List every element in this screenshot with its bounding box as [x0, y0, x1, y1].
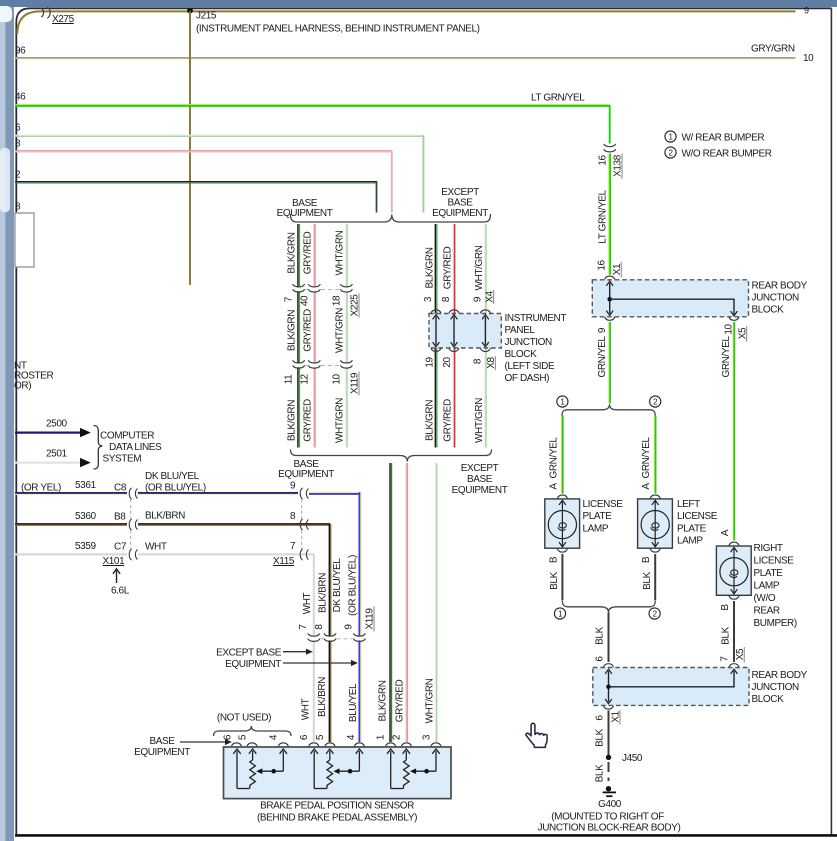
wire BLK/GRN to sensor [390, 463, 392, 742]
svg-text:8: 8 [441, 296, 452, 302]
svg-text:BLK: BLK [595, 728, 606, 746]
svg-text:8: 8 [314, 624, 325, 630]
svg-text:PLATE: PLATE [583, 511, 613, 522]
svg-text:BLK: BLK [642, 571, 653, 589]
note 2 circle right [650, 396, 661, 407]
splice J215 [187, 8, 480, 35]
svg-text:REAR: REAR [754, 606, 780, 617]
connector X275 [41, 7, 74, 25]
ground G400 [598, 786, 622, 810]
potentiometer unit 3 [387, 749, 440, 789]
lamp 2 left license plate lamp [638, 495, 673, 552]
svg-text:BLK/GRN: BLK/GRN [424, 400, 435, 441]
svg-text:3: 3 [423, 296, 434, 302]
label X4 [484, 290, 495, 304]
svg-text:BASE: BASE [447, 198, 473, 209]
potentiometer unit 2 [311, 749, 364, 789]
svg-text:GRY/GRN: GRY/GRN [751, 44, 795, 55]
svg-text:9: 9 [597, 327, 608, 333]
svg-text:BLOCK: BLOCK [505, 349, 538, 360]
svg-text:WHT/GRN: WHT/GRN [334, 398, 345, 443]
wire BLK merge stem [608, 612, 610, 662]
svg-text:(MOUNTED TO RIGHT OF: (MOUNTED TO RIGHT OF [551, 812, 664, 823]
svg-text:16: 16 [598, 155, 609, 166]
svg-text:1: 1 [376, 734, 387, 740]
svg-text:OF DASH): OF DASH) [505, 373, 550, 384]
svg-text:4: 4 [269, 734, 280, 740]
svg-text:19: 19 [425, 357, 436, 368]
svg-text:JUNCTION: JUNCTION [505, 337, 553, 348]
svg-text:9: 9 [472, 296, 483, 302]
brace lamp merge [562, 601, 655, 612]
svg-text:EQUIPMENT: EQUIPMENT [277, 208, 333, 219]
svg-text:LICENSE: LICENSE [754, 556, 795, 567]
label instrument panel junction block [505, 313, 567, 384]
svg-text:BLK: BLK [595, 626, 606, 644]
svg-text:5359: 5359 [75, 541, 96, 552]
label license plate lamp [583, 499, 624, 534]
svg-text:BLU/YEL: BLU/YEL [348, 683, 359, 722]
left ui strip [0, 7, 6, 841]
wire BLK dashed to ground [608, 762, 610, 786]
lamp 1 license plate lamp [545, 495, 580, 552]
svg-text:X101: X101 [103, 556, 126, 567]
wire GRN/YEL lamp2 [654, 416, 655, 494]
svg-text:J450: J450 [622, 753, 643, 764]
label brake pedal position sensor [257, 801, 417, 824]
label EXCEPT BASE EQUIPMENT callout [216, 648, 282, 671]
wire WHT/GRN vertical B [485, 224, 486, 448]
junction block lower arrow vertical [605, 669, 612, 704]
svg-text:X115: X115 [273, 556, 295, 567]
svg-text:C7: C7 [114, 542, 127, 553]
svg-text:DK BLU/YEL: DK BLU/YEL [332, 558, 343, 613]
wire BLK/BRN vertical [329, 524, 330, 742]
svg-text:WHT/GRN: WHT/GRN [474, 245, 485, 290]
wire GRY/RED vertical B [453, 224, 454, 448]
instrument panel junction block [429, 314, 501, 349]
svg-text:BLOCK: BLOCK [752, 694, 785, 705]
svg-text:W/O REAR BUMPER: W/O REAR BUMPER [682, 149, 772, 160]
svg-text:2500: 2500 [46, 419, 67, 430]
connector X115 pin 7 [300, 549, 308, 560]
brace equipment split top [291, 214, 491, 222]
svg-text:BLOCK: BLOCK [752, 305, 785, 316]
svg-text:BLK: BLK [549, 571, 560, 589]
svg-text:6: 6 [595, 656, 606, 662]
wire 5360 BLK/BRN row B8 [15, 511, 331, 525]
connector X115 pin 8 [300, 519, 308, 530]
note 1 W/ REAR BUMPER [665, 131, 765, 144]
wire WHT/GRN horizontal [15, 135, 423, 212]
svg-text:OR): OR) [14, 381, 31, 392]
svg-text:BLK: BLK [595, 764, 606, 782]
ui scrollbar cloud [0, 148, 10, 212]
entry arc X1 [605, 276, 615, 279]
splice dot junction block upper [607, 297, 612, 302]
label X5 right [737, 326, 748, 342]
svg-text:GRY/RED: GRY/RED [302, 309, 313, 352]
svg-text:GRN/YEL: GRN/YEL [721, 336, 732, 378]
svg-text:(INSTRUMENT PANEL HARNESS, BEH: (INSTRUMENT PANEL HARNESS, BEHIND INSTRU… [196, 24, 480, 35]
svg-text:B: B [641, 556, 652, 563]
wire WHT vertical [313, 554, 315, 742]
svg-text:BLK/GRN: BLK/GRN [287, 232, 298, 273]
svg-text:WHT/GRN: WHT/GRN [334, 230, 345, 275]
svg-text:EQUIPMENT: EQUIPMENT [432, 208, 488, 219]
svg-text:6: 6 [222, 734, 233, 740]
svg-text:96: 96 [15, 46, 26, 57]
exit arcs X8 bottom [431, 348, 490, 351]
svg-text:WHT/GRN: WHT/GRN [424, 678, 435, 723]
svg-text:BLK/BRN: BLK/BRN [317, 677, 328, 717]
svg-text:GRY/RED: GRY/RED [442, 247, 453, 290]
svg-text:LT GRN/YEL: LT GRN/YEL [598, 189, 609, 243]
label right license plate lamp [754, 543, 797, 629]
svg-text:GRY/RED: GRY/RED [302, 399, 313, 442]
svg-text:(OR BLU/YEL): (OR BLU/YEL) [145, 483, 206, 494]
label X1 [612, 262, 623, 278]
svg-text:GRN/YEL: GRN/YEL [597, 336, 608, 378]
svg-text:8: 8 [15, 202, 21, 213]
junction block through-arrows [436, 317, 485, 346]
svg-text:DK BLU/YEL: DK BLU/YEL [145, 471, 200, 482]
wire BLK to J450 [608, 711, 610, 756]
wire GRY/RED vertical A [314, 224, 315, 448]
arrow to WHT wire [283, 649, 313, 655]
svg-text:6: 6 [299, 734, 310, 740]
svg-text:(OR BLU/YEL): (OR BLU/YEL) [348, 555, 359, 616]
svg-text:JUNCTION: JUNCTION [752, 293, 800, 304]
svg-text:GRN/YEL: GRN/YEL [548, 437, 559, 479]
svg-text:DATA LINES: DATA LINES [109, 442, 162, 453]
partial text left [14, 360, 53, 391]
exit arcs junction block upper [605, 317, 739, 320]
svg-text:EQUIPMENT: EQUIPMENT [452, 485, 508, 496]
wire WHT/GRN to sensor [435, 463, 436, 742]
label X119b [365, 607, 376, 632]
svg-text:10: 10 [331, 374, 342, 385]
svg-text:REAR BODY: REAR BODY [752, 670, 808, 681]
note 2 circle bottom [649, 608, 660, 619]
note 1 circle left [557, 396, 568, 407]
brace lamp split [562, 404, 655, 415]
entry arcs block lower [604, 664, 740, 667]
svg-text:RIGHT: RIGHT [754, 543, 783, 554]
connector X119b row [311, 636, 363, 641]
svg-text:EQUIPMENT: EQUIPMENT [278, 469, 334, 480]
svg-text:LAMP: LAMP [677, 536, 703, 547]
label X119a [350, 372, 361, 396]
partial component box left [15, 213, 34, 267]
svg-text:4: 4 [346, 734, 357, 740]
svg-text:BRAKE PEDAL POSITION SENSOR: BRAKE PEDAL POSITION SENSOR [260, 801, 414, 812]
svg-text:W/ REAR BUMPER: W/ REAR BUMPER [682, 133, 765, 144]
note 1 circle bottom [554, 608, 565, 619]
wire TAN J215 feed [17, 11, 795, 34]
label X225 [350, 294, 361, 318]
arrow 6.6L [111, 569, 130, 597]
svg-text:8: 8 [472, 358, 483, 364]
svg-text:7: 7 [298, 624, 309, 630]
lamp 3 right license plate lamp [716, 542, 751, 599]
exit arc block lower [604, 706, 614, 709]
svg-text:SYSTEM: SYSTEM [103, 454, 142, 465]
label X1 lower [611, 710, 622, 725]
rear body junction block lower [593, 668, 749, 706]
svg-text:A: A [548, 483, 559, 490]
svg-text:GRN/YEL: GRN/YEL [641, 437, 652, 479]
svg-text:46: 46 [15, 92, 26, 103]
arrow to BLU/YEL wire [283, 660, 358, 666]
svg-text:LAMP: LAMP [754, 581, 780, 592]
connector X101 pin C7 [129, 549, 137, 560]
brace equipment merge bottom [291, 450, 492, 462]
wire DK BLU/YEL vertical [359, 492, 361, 742]
svg-text:LEFT: LEFT [677, 499, 700, 510]
svg-text:2501: 2501 [46, 449, 67, 460]
label rear body junction block upper [752, 281, 808, 316]
svg-text:(OR YEL): (OR YEL) [21, 483, 61, 494]
ui highlight blob [0, 6, 12, 22]
svg-text:COMPUTER: COMPUTER [100, 431, 154, 442]
svg-text:10: 10 [803, 53, 814, 64]
svg-text:C8: C8 [114, 483, 127, 494]
wire GRN/YEL right drop [733, 322, 734, 541]
svg-text:BLK/BRN: BLK/BRN [145, 511, 185, 522]
wire GRN/YEL lamp1 [562, 416, 563, 494]
wire GRY/GRN (row 10) [15, 58, 796, 59]
sensor box [224, 747, 452, 799]
junction block branch wire [610, 299, 734, 314]
wire BLK lamp1 [561, 554, 563, 601]
svg-text:B: B [720, 604, 731, 611]
potentiometer unit 1 [233, 749, 287, 789]
svg-text:6.6L: 6.6L [111, 586, 130, 597]
arrow to sensor pin 6 [180, 739, 232, 745]
svg-text:5: 5 [315, 734, 326, 740]
wire 5361 DK BLU/YEL row C8 [15, 480, 362, 494]
connector X115 pin 9 [300, 488, 308, 499]
svg-text:2: 2 [392, 734, 403, 740]
label BASE EQUIPMENT top [277, 198, 333, 219]
svg-text:G400: G400 [598, 799, 622, 810]
splice J450 [606, 753, 643, 764]
wire BLK/GRN vertical A [298, 224, 300, 448]
svg-text:WHT/GRN: WHT/GRN [334, 308, 345, 353]
wire 2500 DK BLU [15, 419, 91, 438]
junction block lower branch wire [609, 671, 735, 687]
wire WHT/GRN vertical A [346, 224, 347, 448]
svg-text:BASE: BASE [149, 736, 175, 747]
label computer data lines system [100, 431, 162, 465]
wire BLK lamp2 [654, 554, 656, 601]
label X5 lower [735, 647, 746, 663]
svg-text:40: 40 [299, 295, 310, 306]
note 2 W/O REAR BUMPER [665, 147, 772, 160]
svg-text:(BEHIND BRAKE PEDAL ASSEMBLY): (BEHIND BRAKE PEDAL ASSEMBLY) [257, 813, 417, 824]
wire LT GRN/YEL vertical [609, 154, 610, 275]
svg-text:9: 9 [804, 6, 809, 16]
label ground location [538, 812, 681, 834]
entry arcs X4 top [431, 310, 490, 313]
svg-text:3: 3 [421, 734, 432, 740]
svg-text:A: A [720, 529, 731, 536]
svg-text:BUMPER): BUMPER) [754, 618, 797, 629]
wire 5359 WHT row C7 [15, 541, 315, 555]
wire TAN vertical from J215 [189, 11, 191, 285]
svg-text:9: 9 [290, 481, 296, 492]
connector X101 pin C8 [129, 488, 137, 499]
svg-text:PANEL: PANEL [505, 325, 536, 336]
svg-text:GRY/RED: GRY/RED [302, 232, 313, 275]
svg-text:EXCEPT: EXCEPT [461, 463, 499, 474]
svg-text:WHT: WHT [300, 698, 311, 720]
connector X138 [607, 146, 613, 151]
label EXCEPT BASE EQUIPMENT top [432, 187, 488, 219]
svg-text:18: 18 [331, 295, 342, 306]
svg-text:WHT/GRN: WHT/GRN [474, 398, 485, 443]
svg-text:JUNCTION: JUNCTION [752, 682, 800, 693]
svg-text:BLK/GRN: BLK/GRN [424, 247, 435, 288]
svg-text:WHT: WHT [145, 542, 167, 553]
svg-text:LT GRN/YEL: LT GRN/YEL [531, 93, 585, 104]
label X8 [486, 356, 497, 370]
svg-text:B8: B8 [114, 511, 126, 522]
label BASE EQUIPMENT callout [134, 736, 190, 758]
svg-text:LAMP: LAMP [583, 523, 609, 534]
svg-text:6: 6 [15, 123, 21, 134]
svg-text:5360: 5360 [75, 511, 96, 522]
svg-text:A: A [641, 483, 652, 490]
svg-text:EXCEPT: EXCEPT [441, 187, 479, 198]
splice dot junction block lower [606, 685, 611, 690]
svg-text:REAR BODY: REAR BODY [752, 281, 808, 292]
svg-text:8: 8 [15, 139, 21, 150]
svg-text:7: 7 [284, 296, 295, 302]
svg-text:BLK/GRN: BLK/GRN [287, 310, 298, 351]
rear body junction block upper [592, 280, 748, 317]
wire 2501 WHT [15, 449, 91, 468]
svg-text:BLK/GRN: BLK/GRN [287, 400, 298, 441]
svg-text:20: 20 [442, 357, 453, 368]
svg-text:7: 7 [290, 541, 296, 552]
svg-text:(W/O: (W/O [754, 593, 776, 604]
connector X119a row [296, 363, 350, 368]
wire BLK/GRN horizontal [15, 181, 377, 213]
brace not used [214, 726, 292, 736]
sensor entry arcs [232, 743, 442, 746]
svg-text:(NOT USED): (NOT USED) [217, 713, 271, 724]
svg-text:7: 7 [720, 656, 731, 662]
svg-text:GRY/RED: GRY/RED [394, 680, 405, 723]
svg-text:2: 2 [15, 170, 21, 181]
svg-text:8: 8 [290, 511, 296, 522]
svg-text:6: 6 [595, 715, 606, 721]
svg-text:LICENSE: LICENSE [677, 511, 718, 522]
svg-text:PLATE: PLATE [677, 523, 707, 534]
svg-text:9: 9 [344, 624, 355, 630]
label left license plate lamp [677, 499, 718, 547]
svg-text:LICENSE: LICENSE [583, 499, 624, 510]
connector X225 row [296, 287, 350, 292]
svg-text:WHT: WHT [302, 592, 313, 614]
svg-text:EXCEPT BASE: EXCEPT BASE [216, 648, 282, 659]
left edge partial wire numbers [15, 46, 26, 213]
label DK BLU/YEL [145, 471, 206, 494]
svg-text:5: 5 [238, 734, 249, 740]
svg-text:JUNCTION BLOCK-REAR BODY): JUNCTION BLOCK-REAR BODY) [538, 823, 681, 834]
connector X101 pin B8 [129, 519, 137, 530]
svg-text:BLK/BRN: BLK/BRN [318, 573, 329, 613]
svg-text:EQUIPMENT: EQUIPMENT [134, 747, 190, 758]
top window band [0, 0, 837, 7]
svg-text:X275: X275 [52, 14, 75, 25]
label BASE EQUIPMENT bottom [278, 459, 334, 480]
svg-text:INSTRUMENT: INSTRUMENT [505, 313, 567, 324]
svg-text:16: 16 [597, 260, 608, 271]
svg-text:EQUIPMENT: EQUIPMENT [225, 659, 281, 670]
connector tie dashes X101 [130, 500, 132, 549]
wire BLK lamp3 [733, 601, 735, 662]
svg-text:5361: 5361 [75, 480, 96, 491]
svg-text:J215: J215 [196, 11, 217, 22]
connector tie dashes X115 [301, 500, 303, 549]
junction block arrow vertical [606, 281, 613, 315]
svg-text:BASE: BASE [467, 474, 493, 485]
svg-text:BLK/GRN: BLK/GRN [377, 680, 388, 721]
wire LT GRN/YEL horizontal [15, 105, 610, 144]
svg-text:BLK: BLK [721, 626, 732, 644]
label EXCEPT BASE EQUIPMENT bottom [452, 463, 508, 496]
svg-text:(LEFT SIDE: (LEFT SIDE [505, 361, 555, 372]
mouse cursor [526, 723, 547, 747]
wire GRY/RED to sensor [406, 463, 407, 742]
svg-text:B: B [548, 556, 559, 563]
svg-text:PLATE: PLATE [754, 568, 784, 579]
svg-text:12: 12 [299, 374, 310, 385]
label rear body junction block lower [752, 670, 808, 705]
wire BLK/GRN vertical B [435, 224, 437, 448]
wire GRN/YEL left drop [609, 322, 610, 404]
wire GRY/RED horizontal [15, 151, 392, 213]
brace computer data lines [94, 426, 103, 470]
svg-text:11: 11 [284, 374, 295, 384]
svg-text:GRY/RED: GRY/RED [442, 399, 453, 442]
